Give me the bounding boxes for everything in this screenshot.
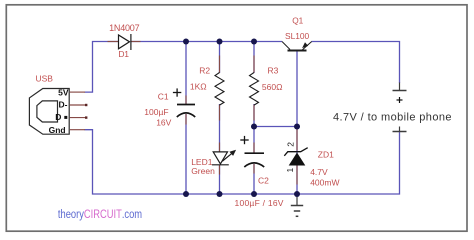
wire: mid link from R3/C2 node to zener/base node: [254, 126, 297, 128]
svg-text:100µF / 16V: 100µF / 16V: [235, 198, 284, 208]
svg-text:SL100: SL100: [285, 31, 310, 41]
svg-text:C1: C1: [158, 92, 169, 102]
svg-text:560Ω: 560Ω: [262, 82, 283, 92]
svg-text:D-: D-: [59, 100, 68, 110]
svg-text:ZD1: ZD1: [318, 150, 334, 160]
wire: R2/LED branch vertical: [219, 42, 221, 74]
LED LED1 pin stubs: [219, 143, 221, 152]
junction: R2 top node: [217, 39, 223, 45]
svg-text:2: 2: [285, 142, 295, 147]
USB connector body: [29, 89, 69, 135]
resistor R2 pin stubs: [219, 56, 221, 73]
wire: ground rail from USB Gnd to output bottom terminal: [85, 130, 400, 194]
wire: zener branch vertical: [296, 127, 298, 195]
zener diode ZD1: [289, 153, 306, 166]
svg-text:1KΩ: 1KΩ: [190, 82, 207, 92]
svg-text:16V: 16V: [156, 118, 171, 128]
capacitor C2: [240, 136, 264, 167]
LED LED1: [212, 152, 232, 165]
svg-text:4.7V / to mobile phone: 4.7V / to mobile phone: [333, 112, 452, 124]
diode D1 pin stubs: [108, 41, 119, 43]
junction: LED bottom node: [217, 191, 223, 197]
junction: R3 top node: [251, 39, 257, 45]
svg-text:5V: 5V: [58, 88, 69, 98]
wire: top rail from transistor emitter to output corner: [312, 42, 400, 84]
output terminal (bottom): [399, 127, 401, 132]
svg-text:D1: D1: [118, 49, 129, 59]
svg-text:theoryCIRCUIT.com: theoryCIRCUIT.com: [58, 208, 142, 221]
svg-text:D: D: [55, 112, 61, 122]
svg-text:Gnd: Gnd: [49, 125, 66, 135]
svg-text:R3: R3: [268, 65, 279, 75]
capacitor C2 pin stubs: [253, 143, 255, 154]
junction: C2 bottom node: [251, 191, 257, 197]
svg-text:4.7V: 4.7V: [310, 167, 328, 177]
svg-text:1: 1: [285, 168, 295, 173]
capacitor C1 pin stubs: [185, 96, 187, 105]
svg-text:400mW: 400mW: [310, 178, 339, 188]
svg-text:100µF: 100µF: [144, 107, 168, 117]
svg-text:Green: Green: [191, 166, 215, 176]
junction: base/zener node: [294, 124, 300, 130]
wire: transistor base vertical: [296, 52, 298, 127]
USB pin D+ stub: [70, 117, 86, 119]
resistor R2: [215, 73, 224, 106]
diode D1: [119, 34, 131, 50]
svg-text:USB: USB: [36, 74, 54, 84]
svg-text:C2: C2: [258, 175, 269, 185]
wire: C1 branch vertical: [185, 42, 187, 105]
capacitor C1: [173, 88, 195, 117]
output terminal plus (top): [399, 83, 401, 91]
svg-text:1N4007: 1N4007: [109, 23, 140, 33]
resistor R3: [250, 73, 259, 106]
wire: R3/C2 branch vertical: [253, 42, 255, 74]
resistor R3 pin stubs: [253, 56, 255, 73]
svg-text:Q1: Q1: [292, 16, 303, 26]
junction: R3/C2 mid node: [251, 124, 257, 130]
transistor Q1: [282, 42, 312, 51]
USB pin 5V stub: [70, 91, 85, 93]
zener ZD1 pin stubs: [296, 129, 298, 151]
junction: C1 bottom node: [183, 191, 189, 197]
junction: ground node: [294, 191, 300, 197]
junction: C1 top node: [183, 39, 189, 45]
USB pin Gnd stub: [70, 129, 85, 131]
USB pin D- stub: [70, 104, 86, 106]
wire: 5V riser and top rail to transistor collector: [85, 42, 119, 93]
svg-text:R2: R2: [199, 65, 210, 75]
ground: [291, 194, 303, 216]
